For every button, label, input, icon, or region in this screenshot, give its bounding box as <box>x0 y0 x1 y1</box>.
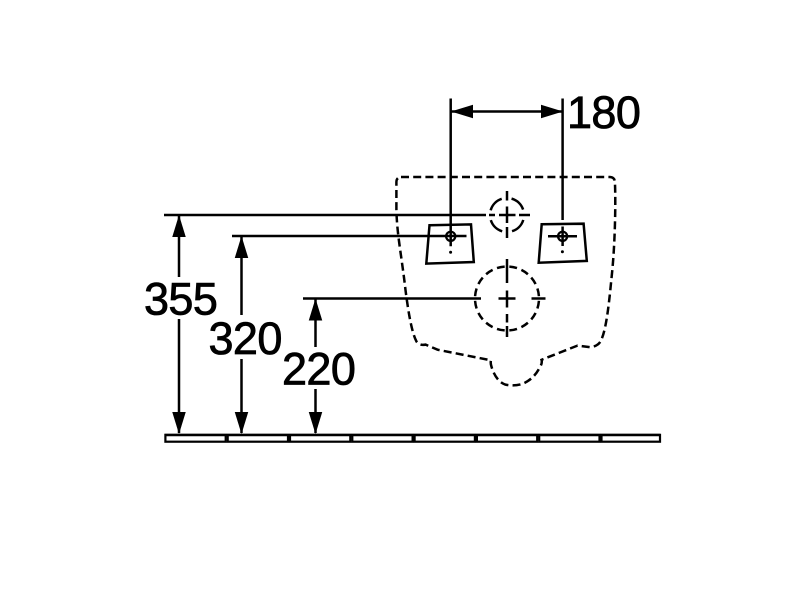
floor tile 4 <box>352 435 412 442</box>
reference line 320 (to bracket hole centre) <box>232 235 467 238</box>
dimension 355 down arrowhead <box>172 412 186 434</box>
waste outlet crosshair circle (large, centre) <box>475 267 539 331</box>
dimension 320 down arrowhead <box>235 412 249 434</box>
dimension 220 down arrowhead <box>309 412 323 434</box>
reference line 355 (to water supply centre) <box>164 214 486 217</box>
left mounting bracket <box>426 224 474 263</box>
waste outlet centre-line cross dashes <box>499 259 546 337</box>
dimension 220 vertical line <box>314 299 317 433</box>
dimension 180 left arrowhead <box>451 105 473 119</box>
floor tile 5 <box>415 435 475 442</box>
right bracket fixing hole <box>558 232 567 241</box>
water supply crosshair circle (top centre) <box>490 198 524 232</box>
dimension 180 line <box>451 110 563 113</box>
reference line 220 (to waste outlet centre) <box>303 297 481 300</box>
floor tile 1 <box>165 435 225 442</box>
ceramic body dashed outline <box>396 177 615 385</box>
dimension 355 vertical line <box>178 216 181 433</box>
dimension 320 vertical line <box>240 237 243 433</box>
svg-text:180: 180 <box>567 87 640 138</box>
dimension 180: left extension centre-line <box>449 99 452 247</box>
right bracket hole horizontal arm <box>548 235 577 238</box>
dimension 355 up arrowhead <box>172 215 186 237</box>
floor line <box>165 434 661 437</box>
water supply centre-line cross dashes <box>489 191 530 238</box>
right centre-line dot <box>561 250 564 253</box>
dimension 220 up arrowhead <box>309 299 323 321</box>
left bracket fixing hole <box>446 232 455 241</box>
left centre-line dot <box>449 251 452 254</box>
svg-text:320: 320 <box>209 313 282 364</box>
floor tile 6 <box>477 435 537 442</box>
right mounting bracket <box>539 224 587 263</box>
dimension 320 up arrowhead <box>235 236 249 258</box>
floor tile 8 <box>602 435 661 442</box>
svg-text:220: 220 <box>282 344 355 395</box>
dimension 180: right extension centre-line <box>561 99 564 247</box>
floor tile 7 <box>539 435 599 442</box>
svg-text:355: 355 <box>144 274 217 325</box>
floor tile 3 <box>290 435 350 442</box>
floor tile 2 <box>228 435 288 442</box>
dimension 180 right arrowhead <box>541 105 563 119</box>
